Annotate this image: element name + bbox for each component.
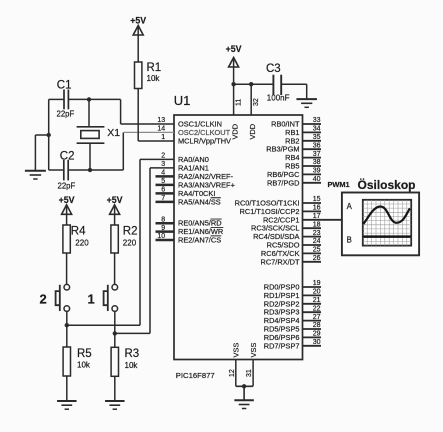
C3 label xyxy=(266,63,281,75)
U1 pin 9 label RE1 xyxy=(178,227,223,236)
svg-text:+5V: +5V xyxy=(226,44,242,54)
svg-text:10k: 10k xyxy=(125,361,139,370)
node OSC2 bottom wire xyxy=(49,169,124,171)
U1 pin 17 label RC2/CCP1 xyxy=(263,215,300,224)
U1 pin 37 stub + number xyxy=(303,151,322,158)
svg-text:Ösiloskop: Ösiloskop xyxy=(358,177,416,192)
junction VSS xyxy=(242,384,246,388)
U1 pin 13 label OSC1 xyxy=(178,120,222,129)
power +5V (R2) xyxy=(107,195,123,215)
X1 label xyxy=(107,127,120,139)
wire junction to pin 2 RA0 xyxy=(67,159,174,325)
U1 pin 35 stub + number xyxy=(303,134,322,141)
svg-text:14: 14 xyxy=(157,126,165,133)
svg-text:22: 22 xyxy=(313,305,321,312)
oscilloscope trace B (flat) xyxy=(363,235,411,238)
U1 pin 8 stub + number xyxy=(156,216,175,223)
ground (crystal) xyxy=(25,171,46,179)
U1 pin 9 stub + number xyxy=(156,225,175,232)
U1 pin 34 stub + number xyxy=(303,126,322,133)
junction button1/R3 xyxy=(113,331,117,335)
U1 pin 23 stub + number xyxy=(303,230,322,237)
ground (R5) xyxy=(57,401,77,409)
svg-text:11: 11 xyxy=(236,99,243,106)
svg-text:18: 18 xyxy=(313,221,321,228)
U1 pin 38 stub + number xyxy=(303,159,322,166)
svg-text:34: 34 xyxy=(313,126,321,133)
svg-text:15: 15 xyxy=(313,196,321,203)
svg-text:1: 1 xyxy=(88,292,95,307)
svg-text:10k: 10k xyxy=(147,74,161,83)
U1 pin 31 number xyxy=(246,369,253,377)
svg-text:PIC16F877: PIC16F877 xyxy=(176,371,215,380)
svg-text:16: 16 xyxy=(313,205,321,212)
node PWM1 label xyxy=(328,180,350,189)
U1 pin 17 stub + number xyxy=(313,213,321,220)
U1 pin 12 VSS lead xyxy=(235,360,237,387)
svg-text:22pF: 22pF xyxy=(57,109,75,118)
wire button 1 to junction xyxy=(114,312,116,334)
resistor R1 10k xyxy=(135,62,162,89)
U1 pin 34 label RB1 xyxy=(285,128,299,137)
ground (C3) xyxy=(296,99,317,107)
wire R4 to button 2 xyxy=(66,253,68,284)
svg-text:21: 21 xyxy=(313,297,321,304)
ground (VSS) xyxy=(234,400,254,408)
oscilloscope channel B label xyxy=(347,236,352,245)
U1 pin 10 label RE2 xyxy=(178,236,221,245)
wire +5V to R4 xyxy=(66,215,68,225)
svg-text:25: 25 xyxy=(313,247,321,254)
push button 2 xyxy=(56,284,70,311)
wire crystal top lead xyxy=(88,99,90,126)
svg-text:X1: X1 xyxy=(107,127,120,139)
resistor R3 10k xyxy=(111,347,139,376)
power +5V (R1) xyxy=(130,16,146,36)
svg-text:35: 35 xyxy=(313,134,321,141)
svg-text:2: 2 xyxy=(40,292,47,307)
svg-text:30: 30 xyxy=(313,339,321,346)
U1 pin 14 label OSC2 xyxy=(178,128,231,137)
U1 pin 19 label RD0/PSP0 xyxy=(264,283,300,292)
U1 pin 2 number xyxy=(161,153,165,160)
junction left rail / ground tee xyxy=(47,133,51,137)
U1 pin 5 label RA3 xyxy=(178,180,235,189)
resistor R5 10k xyxy=(63,347,92,376)
U1 pin 21 stub + number xyxy=(303,297,322,304)
svg-text:U1: U1 xyxy=(174,93,191,108)
svg-text:220: 220 xyxy=(75,238,89,247)
svg-text:32: 32 xyxy=(253,98,260,106)
U1 pin 32 VDD label xyxy=(248,124,257,140)
U1 pin 24 stub + number xyxy=(303,238,322,245)
svg-text:R5: R5 xyxy=(77,348,92,360)
ground (R3) xyxy=(105,401,125,409)
U1 pin 6 label RA4 xyxy=(178,189,215,198)
U1 pin 3 label RA1 xyxy=(178,163,209,172)
wire left rail xyxy=(48,99,50,170)
junction OSC2/crystal bottom xyxy=(88,168,92,172)
U1 pin 39 label RB6/PGC xyxy=(267,170,300,179)
svg-text:R3: R3 xyxy=(125,348,140,360)
junction button2/R5 xyxy=(65,323,69,327)
wire +5V to R2 xyxy=(114,215,116,225)
wire +5V rail xyxy=(234,68,274,85)
junction OSC1/crystal top xyxy=(87,97,91,101)
svg-text:29: 29 xyxy=(313,331,321,338)
svg-text:24: 24 xyxy=(313,238,321,245)
U1 pin 12 number xyxy=(229,369,236,377)
U1 pin 20 label RD1/PSP1 xyxy=(264,291,300,300)
U1 pin 15 stub + number xyxy=(303,196,322,203)
U1 pin 40 label RB7/PGD xyxy=(267,178,299,187)
U1 pin 18 stub + number xyxy=(303,221,322,228)
svg-text:26: 26 xyxy=(313,255,321,262)
U1 pin 15 label RC0/T1OSO/T1CKI xyxy=(235,199,300,208)
capacitor C3 xyxy=(273,75,281,95)
U1 pin 1 number xyxy=(161,134,165,141)
svg-text:9: 9 xyxy=(161,225,165,232)
U1 pin 32 number xyxy=(253,98,260,106)
svg-text:13: 13 xyxy=(157,117,165,124)
svg-text:10k: 10k xyxy=(77,361,91,370)
svg-text:1: 1 xyxy=(161,134,165,141)
oscilloscope channel A label xyxy=(347,202,353,211)
wire OSC2 to pin 14 xyxy=(123,132,174,170)
svg-text:RA5/AN4/SS: RA5/AN4/SS xyxy=(178,197,221,206)
U1 pin 25 label RC6/TX/CK xyxy=(261,249,300,258)
U1 pin 33 stub + number xyxy=(303,117,322,124)
capacitor C1 xyxy=(64,90,68,110)
svg-text:VSS: VSS xyxy=(232,343,241,358)
svg-text:220: 220 xyxy=(123,238,137,247)
svg-text:40: 40 xyxy=(313,176,321,183)
svg-text:33: 33 xyxy=(313,117,321,124)
svg-text:28: 28 xyxy=(313,322,321,329)
oscilloscope body xyxy=(342,193,419,256)
IC U1 PIC16F877 xyxy=(174,115,303,360)
svg-text:37: 37 xyxy=(313,151,321,158)
U1 pin 11 number xyxy=(236,99,243,106)
U1 pin 40 stub + number xyxy=(303,176,322,183)
wire C3 to ground xyxy=(281,84,307,99)
svg-text:RB7/PGD: RB7/PGD xyxy=(267,178,299,187)
svg-text:3: 3 xyxy=(161,161,165,168)
wire pin 17 CCP1 to oscilloscope (PWM1 net) xyxy=(303,219,342,221)
svg-text:RE2/AN7/CS: RE2/AN7/CS xyxy=(178,236,221,245)
svg-text:4: 4 xyxy=(161,170,165,177)
U1 reference label xyxy=(174,93,191,108)
U1 pin 28 label RD5/PSP5 xyxy=(264,325,300,334)
capacitor C2 xyxy=(64,160,68,181)
svg-text:C2: C2 xyxy=(60,150,75,162)
svg-text:C1: C1 xyxy=(57,79,72,91)
junction VDD pin 11 xyxy=(231,82,235,86)
U1 pin 6 stub + number xyxy=(156,187,175,194)
U1 pin 29 stub + number xyxy=(303,331,322,338)
junction VDD pin 32 xyxy=(249,82,253,86)
wire to ground xyxy=(35,135,48,171)
U1 pin 18 label RC3/SCK/SCL xyxy=(251,224,299,233)
button 1 label xyxy=(88,292,95,307)
U1 pin 27 label RD4/PSP4 xyxy=(264,316,300,325)
svg-text:36: 36 xyxy=(313,142,321,149)
resistor R4 220 xyxy=(63,225,89,253)
U1 pin 8 label RE0 xyxy=(178,219,222,228)
C2 label xyxy=(60,150,75,162)
wire R1 to pin 1 MCLR xyxy=(138,89,174,142)
U1 pin 26 stub + number xyxy=(303,255,322,262)
U1 pin 19 stub + number xyxy=(303,280,322,287)
U1 pin 4 label RA2 xyxy=(178,172,234,181)
svg-text:20: 20 xyxy=(313,289,321,296)
U1 pin 26 label RC7/RX/DT xyxy=(260,257,299,266)
svg-text:23: 23 xyxy=(313,230,321,237)
power +5V (R4) xyxy=(59,195,75,215)
svg-text:VDD: VDD xyxy=(230,124,239,140)
U1 pin 11 VDD lead xyxy=(233,84,235,115)
svg-text:R4: R4 xyxy=(71,225,86,237)
U1 pin 5 stub + number xyxy=(156,178,175,185)
U1 pin 32 VDD lead xyxy=(250,84,252,115)
U1 pin 30 stub + number xyxy=(303,339,322,346)
C3 value 100nF xyxy=(267,93,290,102)
U1 pin 1 label MCLR xyxy=(178,137,231,146)
svg-text:B: B xyxy=(347,236,352,245)
resistor R2 220 xyxy=(111,225,138,253)
svg-text:MCLR/Vpp/THV: MCLR/Vpp/THV xyxy=(178,137,231,146)
U1 pin 10 stub + number xyxy=(156,233,175,240)
svg-text:RC7/RX/DT: RC7/RX/DT xyxy=(260,257,299,266)
svg-text:PWM1: PWM1 xyxy=(328,180,350,189)
U1 pin 33 label RB0/INT xyxy=(271,120,300,129)
push button 1 xyxy=(104,284,118,311)
U1 pin 3 number xyxy=(161,161,165,168)
U1 pin 25 stub + number xyxy=(303,247,322,254)
U1 pin 28 stub + number xyxy=(303,322,322,329)
svg-text:A: A xyxy=(347,202,353,211)
U1 pin 29 label RD6/PSP6 xyxy=(264,333,300,342)
svg-text:RD7/PSP7: RD7/PSP7 xyxy=(264,341,300,350)
wire R3 to ground xyxy=(114,376,116,401)
svg-text:7: 7 xyxy=(161,195,165,202)
oscilloscope Osiloskop title xyxy=(358,177,416,192)
U1 pin 36 label RB3/PGM xyxy=(266,145,299,154)
svg-text:100nF: 100nF xyxy=(267,93,290,102)
wire OSC1 to pin 13 xyxy=(121,99,174,124)
C1 value 22pF xyxy=(57,109,75,118)
U1 pin 36 stub + number xyxy=(303,142,322,149)
U1 pin 7 label RA5 xyxy=(178,197,221,206)
wire junction to R3 xyxy=(114,333,116,347)
power +5V (VDD) xyxy=(226,44,242,68)
svg-text:22pF: 22pF xyxy=(58,181,76,190)
svg-text:5: 5 xyxy=(161,178,165,185)
crystal X1 xyxy=(77,127,105,143)
svg-text:19: 19 xyxy=(313,280,321,287)
U1 pin 14 number xyxy=(157,126,165,133)
PIC16F877 part label xyxy=(176,371,215,380)
svg-text:6: 6 xyxy=(161,187,165,194)
svg-text:R2: R2 xyxy=(123,225,138,237)
U1 pin 37 label RB4 xyxy=(285,153,299,162)
svg-text:31: 31 xyxy=(246,369,253,377)
U1 pin 16 label RC1/T1OSI/CCP2 xyxy=(240,207,300,216)
svg-text:C3: C3 xyxy=(266,63,281,75)
svg-text:10: 10 xyxy=(157,233,165,240)
wire R2 to button 1 xyxy=(114,253,116,284)
wire junction to R5 xyxy=(66,325,68,347)
C1 label xyxy=(57,79,72,91)
U1 pin 39 stub + number xyxy=(303,168,322,175)
U1 pin 23 label RC4/SDI/SDA xyxy=(253,232,299,241)
wire +5V to R1 xyxy=(137,36,139,63)
svg-text:VSS: VSS xyxy=(249,343,258,358)
U1 pin 31 VSS lead xyxy=(252,360,254,387)
U1 pin 22 label RD3/PSP3 xyxy=(264,308,300,317)
C2 value 22pF xyxy=(58,181,76,190)
U1 pin 22 stub + number xyxy=(303,305,322,312)
U1 pin 7 stub + number xyxy=(156,195,175,202)
U1 pin 13 number xyxy=(157,117,165,124)
U1 pin 2 label RA0 xyxy=(178,155,209,164)
oscilloscope screen xyxy=(363,200,411,246)
U1 pin 35 label RB2 xyxy=(285,136,299,145)
svg-text:R1: R1 xyxy=(147,62,162,74)
wire VSS join xyxy=(236,386,253,400)
U1 pin 27 stub + number xyxy=(303,314,322,321)
U1 pin 24 label RC5/SDO xyxy=(267,241,300,250)
wire button 2 to junction xyxy=(66,312,68,326)
svg-text:2: 2 xyxy=(161,153,165,160)
U1 pin 38 label RB5 xyxy=(285,162,299,171)
svg-text:12: 12 xyxy=(229,369,236,377)
U1 pin 4 stub + number xyxy=(156,170,175,177)
svg-text:VDD: VDD xyxy=(248,124,257,140)
button 2 label xyxy=(40,292,47,307)
node OSC1 top wire xyxy=(49,98,121,100)
wire crystal bottom lead xyxy=(89,143,91,170)
U1 pin 12 VSS label xyxy=(232,343,241,358)
wire R5 to ground xyxy=(66,376,68,401)
U1 pin 30 label RD7/PSP7 xyxy=(264,341,300,350)
svg-text:27: 27 xyxy=(313,314,321,321)
U1 pin 21 label RD2/PSP2 xyxy=(264,299,300,308)
U1 pin 31 VSS label xyxy=(249,343,258,358)
svg-text:39: 39 xyxy=(313,168,321,175)
U1 pin 11 VDD label xyxy=(230,124,239,140)
U1 pin 20 stub + number xyxy=(303,289,322,296)
wire junction to pin 3 RA1 xyxy=(115,168,174,334)
oscilloscope trace A (sine) xyxy=(363,207,410,225)
svg-text:38: 38 xyxy=(313,159,321,166)
svg-text:8: 8 xyxy=(161,216,165,223)
U1 pin 16 stub + number xyxy=(303,205,322,212)
